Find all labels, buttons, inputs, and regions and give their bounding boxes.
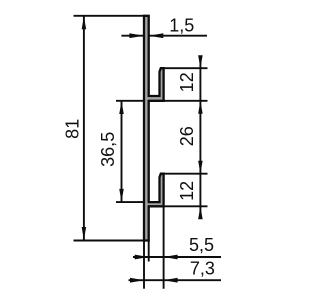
svg-text:12: 12 — [177, 181, 197, 201]
svg-text:5,5: 5,5 — [189, 235, 214, 255]
svg-text:81: 81 — [63, 119, 83, 139]
svg-text:36,5: 36,5 — [98, 132, 118, 167]
svg-text:7,3: 7,3 — [190, 258, 215, 278]
svg-text:12: 12 — [177, 72, 197, 92]
svg-text:26: 26 — [177, 126, 197, 146]
svg-text:1,5: 1,5 — [169, 16, 194, 36]
